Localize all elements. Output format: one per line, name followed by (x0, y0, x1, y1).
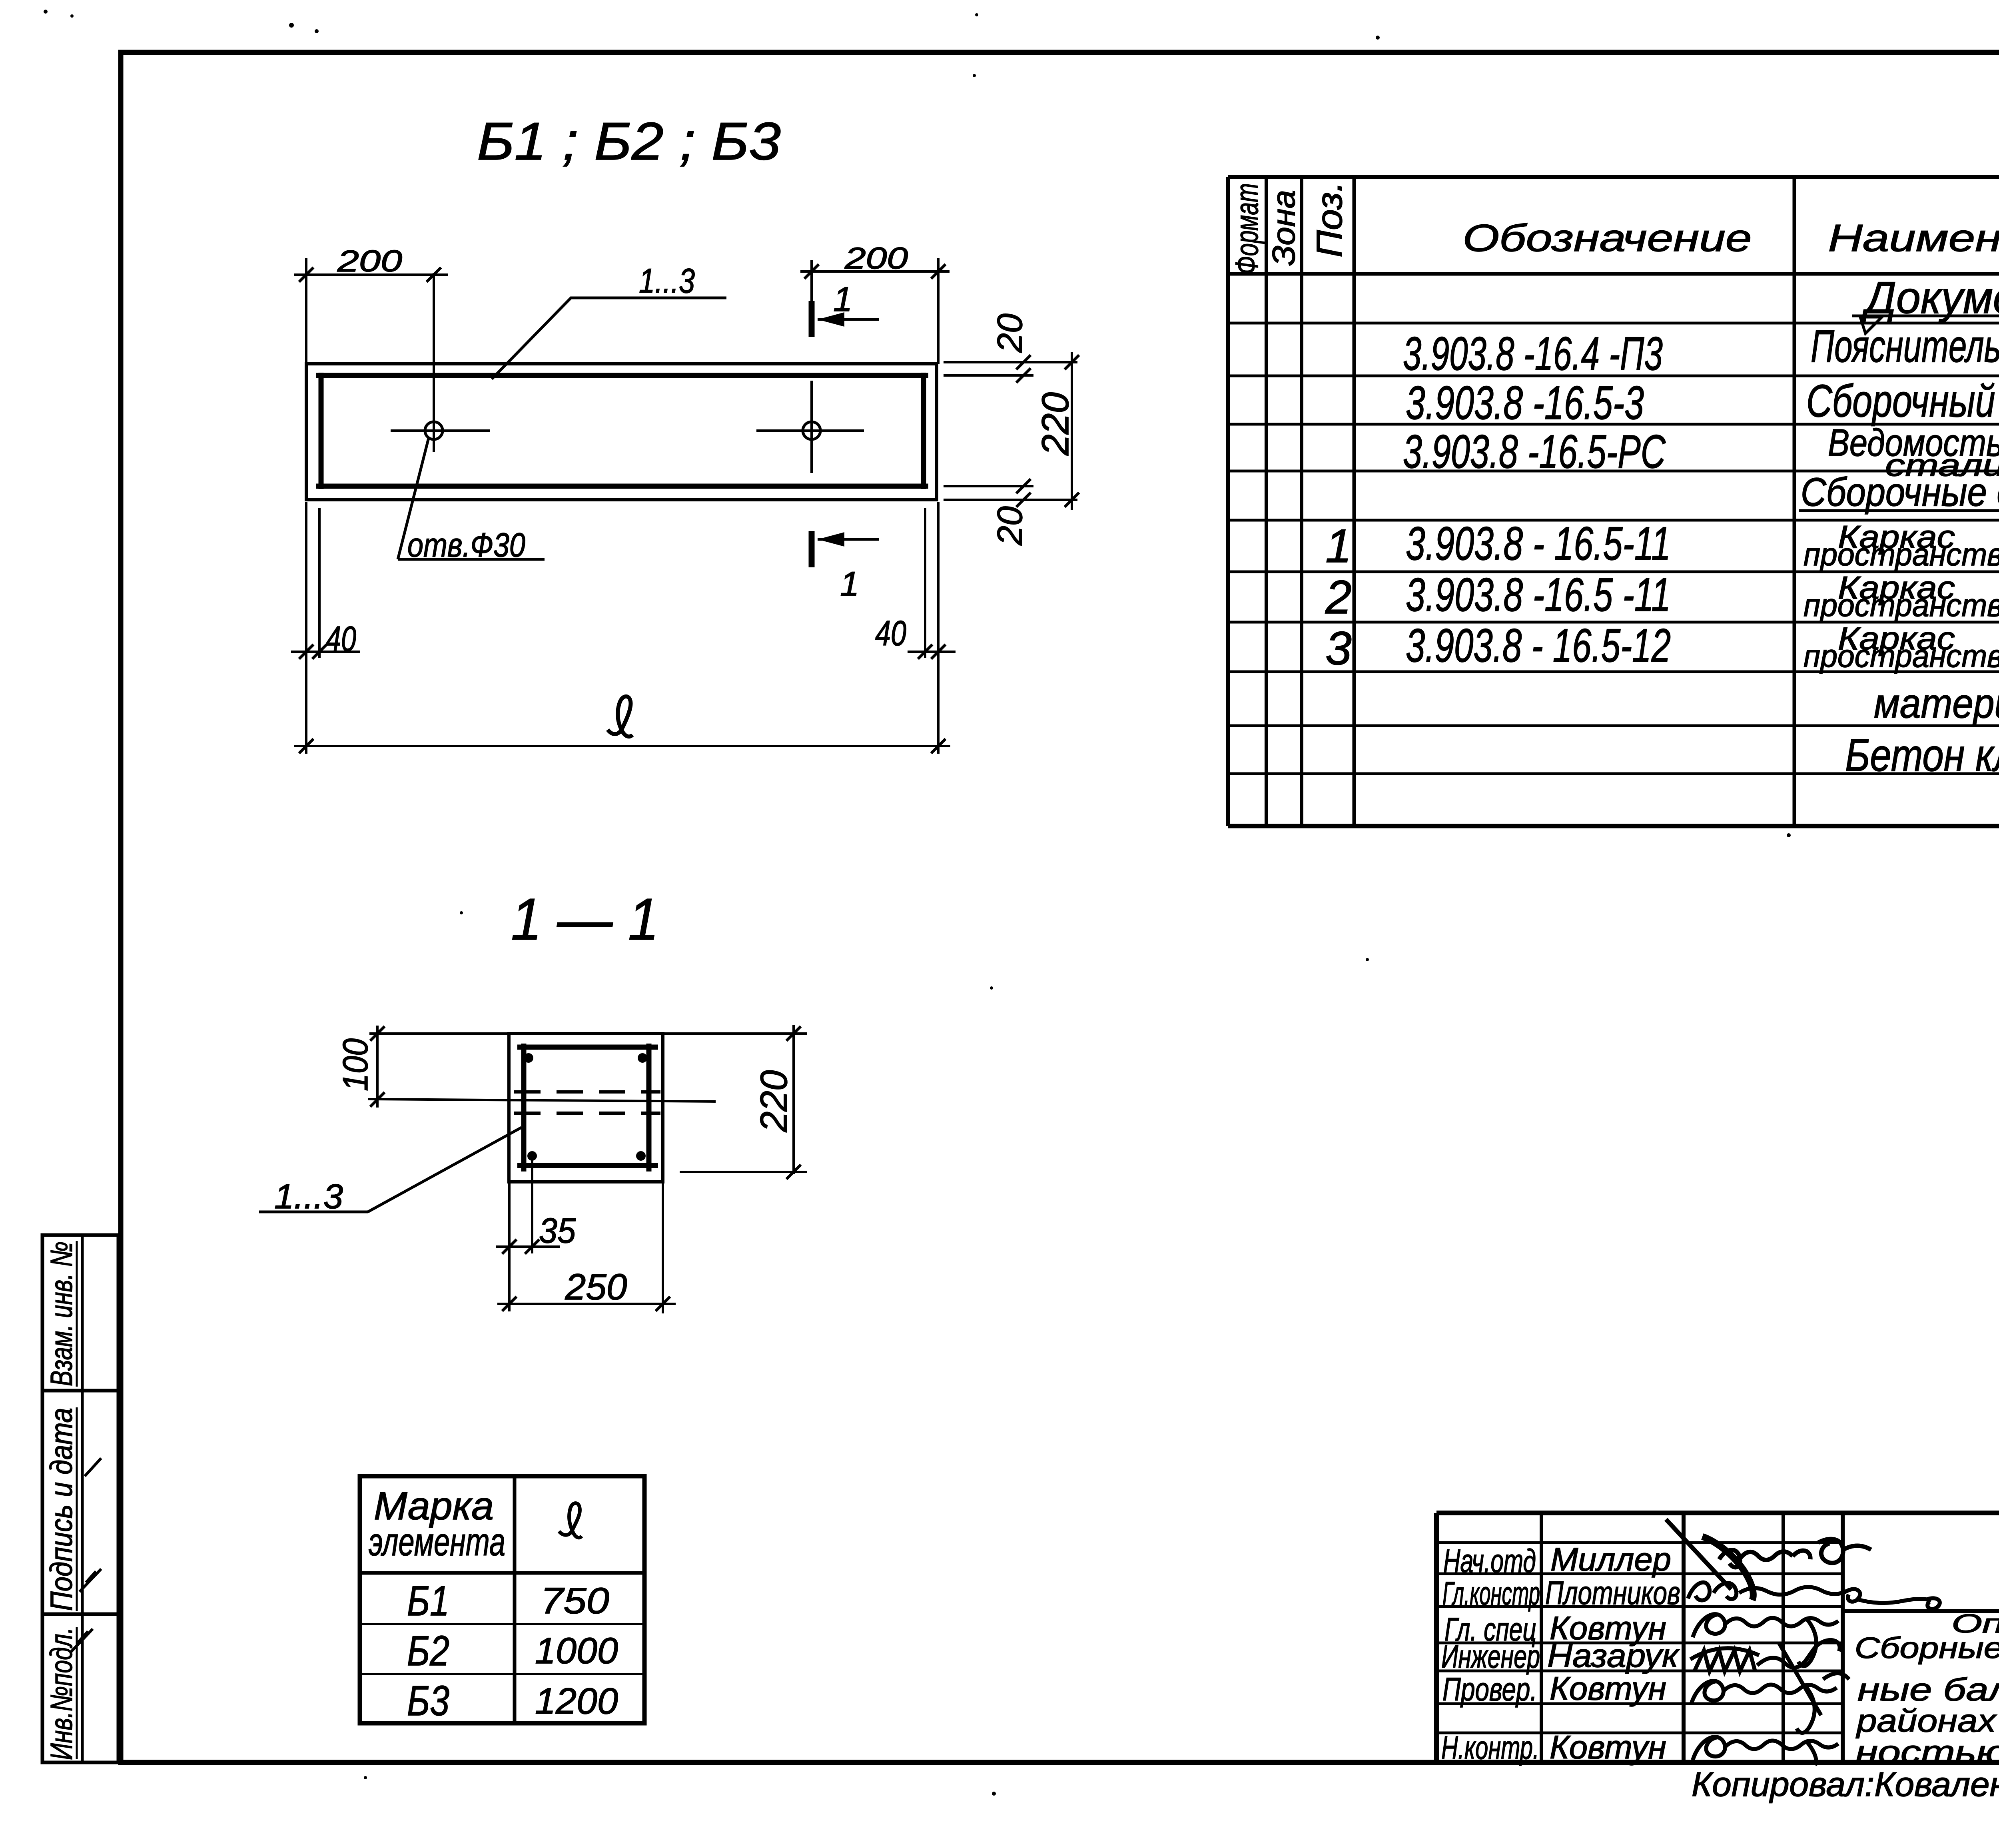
svg-text:1: 1 (1325, 520, 1352, 573)
dim 100: tick top (370, 1026, 385, 1041)
svg-text:пространственный: пространственный (1803, 587, 1999, 623)
svg-text:Обозначение: Обозначение (1463, 217, 1752, 259)
dim 20 top right: extension from beam top (944, 361, 1077, 363)
section mark 1 bottom: thick tick (809, 531, 815, 567)
left hole circle (425, 422, 443, 439)
left stamp outer box (42, 1235, 118, 1762)
svg-text:Наименование: Наименование (1828, 217, 1999, 259)
marka header script ell (559, 1503, 582, 1537)
dim 220 right: dimension line (1071, 352, 1073, 510)
dust speck (315, 29, 319, 33)
spec table header bottom line (1228, 272, 1999, 276)
section cage bottom bar (517, 1163, 658, 1168)
svg-text:ностью 7,8и9 баллов: ностью 7,8и9 баллов (1855, 1734, 1999, 1770)
right hole vertical centerline (810, 381, 813, 473)
svg-text:40: 40 (875, 613, 906, 653)
section centerline through square (368, 1099, 716, 1102)
dust speck (70, 14, 74, 18)
leader 1...3 section: underline (259, 1211, 368, 1213)
dim l overall: script ell label (608, 696, 632, 736)
svg-text:Миллер: Миллер (1550, 1541, 1671, 1578)
leader отв.Ф30: underline (398, 558, 545, 561)
svg-text:20: 20 (990, 313, 1029, 353)
dim 20 bottom right: extension from cage bottom (944, 485, 1033, 487)
title block col line signature/date (1782, 1513, 1785, 1762)
title block sig row line 6 (1436, 1702, 1843, 1705)
left stamp label underline (76, 1241, 78, 1387)
dim 40 left: tick 1 (299, 645, 313, 659)
dim 220 right: tick top (1065, 355, 1079, 369)
marka table column divider (513, 1476, 517, 1723)
svg-text:40: 40 (326, 619, 356, 659)
spec table top border (1228, 175, 1999, 179)
svg-text:Б3: Б3 (407, 1677, 449, 1724)
left hole horizontal centerline (391, 429, 490, 432)
svg-text:Поз.: Поз. (1310, 182, 1350, 257)
svg-text:1: 1 (840, 565, 859, 603)
dim 220 section: bottom extension (680, 1171, 807, 1173)
marka table row line 1 (360, 1623, 644, 1625)
reinforcing cage top bar (316, 373, 928, 378)
dust speck (1376, 36, 1380, 40)
svg-text:750: 750 (541, 1581, 609, 1621)
section mark 1 top: thick tick (809, 301, 815, 337)
dim 35: extension from rebar (531, 1159, 533, 1253)
spec table col line формат/зона (1265, 177, 1268, 826)
dim 250: tick left (502, 1297, 517, 1311)
dim 40 left: offset extension line (318, 508, 321, 658)
svg-text:Б2: Б2 (407, 1627, 449, 1674)
dim 200 right: tick right (931, 264, 946, 279)
dim 200 right: extension above section line (810, 260, 813, 301)
dim 35: tick 1 (502, 1239, 517, 1254)
dim 250: dimension line (497, 1303, 676, 1305)
svg-text:пространственный: пространственный (1803, 638, 1999, 674)
signature Плотников (1688, 1583, 1940, 1609)
reinforcing cage right end bar (921, 373, 926, 489)
dust speck (975, 13, 978, 16)
svg-text:3.903.8 -16.5 -11: 3.903.8 -16.5 -11 (1406, 569, 1671, 621)
svg-text:Подпись и дата: Подпись и дата (44, 1408, 79, 1611)
svg-text:Сборочные единицы: Сборочные единицы (1801, 470, 1999, 515)
dust speck (990, 986, 993, 990)
dim 20 top right: tick top (1016, 355, 1031, 369)
svg-text:100: 100 (335, 1038, 375, 1091)
dim 40 right: extension line at beam edge (937, 502, 940, 754)
title block sig row line 5 (1436, 1670, 1843, 1672)
svg-text:районах с сейсмич-: районах с сейсмич- (1856, 1703, 1999, 1738)
svg-text:Плотников: Плотников (1545, 1575, 1680, 1611)
dust speck (44, 10, 48, 14)
svg-text:Ковтун: Ковтун (1550, 1670, 1666, 1707)
marka table header bottom line (360, 1571, 644, 1575)
svg-text:отв.Ф30: отв.Ф30 (407, 526, 525, 564)
dim 220 section: top extension (663, 1032, 807, 1035)
svg-text:Гл.констр: Гл.констр (1442, 1575, 1540, 1612)
dim 200 right: dimension line (800, 270, 950, 273)
svg-text:35: 35 (539, 1211, 576, 1250)
spec table row line 3 (1228, 423, 1999, 426)
dim 200 left: tick right (427, 267, 441, 282)
left stamp divider 2 (42, 1613, 118, 1616)
svg-text:Пояснительная записка: Пояснительная записка (1811, 321, 1999, 372)
left stamp pen mark (80, 1569, 101, 1592)
dim 220 section: tick top (786, 1026, 801, 1041)
svg-text:2: 2 (1325, 571, 1352, 624)
svg-text:3.903.8 -16.5-РС: 3.903.8 -16.5-РС (1403, 425, 1666, 478)
svg-text:Провер.: Провер. (1442, 1671, 1537, 1708)
svg-text:220: 220 (753, 1070, 795, 1132)
dim 40 right: tick 1 (918, 645, 932, 659)
rebar dot top-left (524, 1053, 533, 1063)
section cage left bar (521, 1044, 527, 1171)
dim 40 right: dimension line (908, 651, 956, 653)
svg-text:1...3: 1...3 (639, 262, 695, 300)
section mark 1 top: arrowhead (818, 312, 844, 327)
beam outline (plan view) (306, 364, 937, 500)
svg-text:элемента: элемента (369, 1520, 505, 1564)
spec table row line 5 (1228, 519, 1999, 522)
dust speck (1366, 958, 1369, 961)
dust speck (289, 23, 294, 28)
dim 40 left: tick 2 (312, 645, 327, 659)
spec table row line 2 (1228, 375, 1999, 377)
svg-text:Копировал:Коваленко: Копировал:Коваленко (1692, 1766, 1999, 1804)
dim 20 bottom right: tick top (1016, 479, 1031, 493)
svg-text:1 — 1: 1 — 1 (511, 886, 659, 952)
svg-text:200: 200 (844, 241, 908, 275)
spec table row line 4 (1228, 470, 1999, 473)
dim 40 left: dimension line (291, 651, 360, 653)
svg-text:Формат: Формат (1229, 183, 1265, 274)
dim 200 left: left extension line (305, 258, 307, 364)
spec table col line зона/поз (1300, 177, 1303, 826)
svg-text:ные балки Б1;Б2;Б3 в: ные балки Б1;Б2;Б3 в (1857, 1672, 1999, 1707)
section outline square (509, 1034, 663, 1182)
dust speck (1787, 833, 1791, 837)
dim l overall: tick right (931, 739, 946, 753)
reinforcing cage left end bar (319, 373, 324, 489)
svg-text:3.903.8 - 16.5-12: 3.903.8 - 16.5-12 (1406, 619, 1671, 672)
left stamp pen mark (85, 1458, 101, 1476)
svg-text:1000: 1000 (535, 1630, 618, 1671)
dim 220 section: tick bottom (786, 1165, 801, 1179)
dim 250: right extension (662, 1183, 664, 1313)
spec table row line 7 (1228, 621, 1999, 624)
svg-text:Бетон кл. В15: Бетон кл. В15 (1845, 730, 1999, 781)
dim 20 bottom right: extension from beam bottom (944, 499, 1077, 501)
dim 250: tick right (656, 1297, 670, 1311)
rebar dot bottom-left (527, 1151, 537, 1161)
dim l overall: tick left (299, 739, 313, 753)
dim 100: dimension line (376, 1026, 379, 1108)
reinforcing cage bottom bar (316, 484, 928, 489)
title block col line date/doc-title (1841, 1513, 1845, 1762)
title block col line label/name (1540, 1513, 1543, 1762)
signature Миллер (1719, 1539, 1871, 1567)
spec table col line обозначение/наименование (1793, 177, 1796, 826)
right hole circle (803, 422, 820, 439)
svg-text:Ковтун: Ковтун (1550, 1729, 1666, 1766)
svg-text:Нач.отд: Нач.отд (1443, 1543, 1536, 1579)
svg-text:3.903.8 - 16.5-11: 3.903.8 - 16.5-11 (1406, 517, 1671, 570)
signature Ковтун (Провер.) (1691, 1673, 1849, 1733)
title block sig row line 4 (1436, 1642, 1843, 1644)
dim 20 bottom right: tick bottom (1016, 493, 1031, 507)
spec table row line 1 (1228, 322, 1999, 325)
dim 100: tick bottom (370, 1092, 385, 1107)
signature Назарук (1690, 1640, 1840, 1715)
svg-text:Назарук: Назарук (1547, 1638, 1680, 1674)
svg-text:250: 250 (565, 1267, 627, 1307)
title block top border (1436, 1511, 1999, 1515)
dust speck (973, 74, 976, 77)
dim 35: left extension (508, 1183, 511, 1311)
spec table row line 6 (1228, 571, 1999, 573)
dim 200 left: dimension line (294, 273, 448, 276)
svg-text:Зона: Зона (1266, 190, 1301, 266)
dim 35: tick 2 (525, 1239, 539, 1254)
title block sig row line 3 (1436, 1605, 1843, 1608)
signature Ковтун (Н.контр.) (1693, 1737, 1838, 1765)
title block sig row line 1 (1436, 1541, 1843, 1544)
spec table bottom border (1228, 824, 1999, 828)
title block sig row line 2 (1436, 1573, 1843, 1575)
title block left border (1434, 1513, 1439, 1762)
section cage right bar (646, 1044, 652, 1171)
left stamp label underline (76, 1627, 78, 1759)
dim 35: dimension line (496, 1245, 560, 1248)
left stamp label underline (76, 1407, 78, 1611)
dust speck (992, 1792, 996, 1796)
row Документация underline (1852, 315, 1999, 317)
spec table left border (1226, 177, 1230, 826)
svg-text:3: 3 (1325, 622, 1352, 675)
left stamp pen mark (71, 1629, 93, 1652)
svg-text:1...3: 1...3 (274, 1177, 343, 1216)
dim 40 left: extension line at beam edge (305, 502, 307, 754)
rebar dot bottom-right (636, 1151, 646, 1161)
left hole vertical centerline / extension (433, 273, 435, 452)
leader отв.Ф30: line (398, 438, 429, 559)
dim 100: top extension line (369, 1032, 509, 1035)
row Документация flag mark (1860, 317, 1882, 333)
section cage top bar (517, 1045, 658, 1050)
section mark 1 bottom: arrowhead (818, 532, 844, 547)
svg-text:материалы:: материалы: (1874, 681, 1999, 727)
dim 200 right: right extension line (937, 258, 940, 364)
svg-text:20: 20 (990, 506, 1029, 546)
rebar dot top-right (638, 1053, 647, 1063)
svg-text:220: 220 (1034, 392, 1077, 456)
dim l overall: dimension line (294, 745, 950, 747)
svg-text:Инженер: Инженер (1441, 1638, 1540, 1675)
marka table outer box (360, 1476, 644, 1723)
title block sig row line 7 (1436, 1732, 1843, 1734)
svg-text:1: 1 (833, 280, 852, 319)
svg-text:пространственный: пространственный (1803, 537, 1999, 572)
leader 1...3 section: diagonal (368, 1128, 521, 1212)
spec table row line 8 (1228, 671, 1999, 673)
dim 200 right: tick left (804, 264, 819, 279)
leader 1...3 (plan): polyline (492, 298, 726, 379)
spec table col line поз/обозначение (1353, 177, 1356, 826)
title block col line name/signature (1682, 1513, 1686, 1762)
signature flourish stroke 2 (1702, 1537, 1753, 1600)
strand dashed line lower (514, 1112, 660, 1115)
svg-text:Сборные железобетон-: Сборные железобетон- (1855, 1631, 1999, 1664)
signature Ковтун (Гл.спец) (1693, 1614, 1838, 1666)
svg-text:200: 200 (337, 244, 402, 278)
dim 20 top right: tick bottom (1016, 368, 1031, 383)
section mark 1 top: arrow shaft (818, 318, 879, 321)
spec table row line 10 (1228, 772, 1999, 775)
dim 220 right: tick bottom (1065, 493, 1079, 507)
svg-text:Взам. инв. №: Взам. инв. № (44, 1241, 79, 1386)
spec table row line 9 (1228, 724, 1999, 727)
dust speck (364, 1776, 367, 1779)
row Сборочные единицы underline (1799, 509, 1999, 512)
section mark 1 bottom: arrow shaft (818, 538, 879, 541)
svg-text:Н.контр.: Н.контр. (1441, 1730, 1539, 1766)
dim 40 right: offset extension line (924, 508, 926, 658)
dim 200 left: tick left (299, 267, 313, 282)
svg-text:Б1 ; Б2 ; Б3: Б1 ; Б2 ; Б3 (477, 112, 781, 171)
left stamp column divider (81, 1235, 84, 1762)
dim 40 right: tick 2 (931, 645, 946, 659)
title block line under doc code (1843, 1609, 1999, 1613)
dim 220 section: dimension line (792, 1025, 795, 1174)
signature flourish stroke 1 (1666, 1519, 1731, 1589)
svg-text:3.903.8 -16.5-3: 3.903.8 -16.5-3 (1406, 377, 1644, 429)
svg-text:Б1: Б1 (407, 1577, 449, 1624)
svg-text:Сборочный чертеж: Сборочный чертеж (1806, 376, 1999, 427)
strand dashed line upper (514, 1090, 660, 1094)
svg-text:1200: 1200 (535, 1681, 618, 1722)
right hole horizontal centerline (756, 429, 864, 432)
dust speck (460, 911, 463, 914)
marka table row line 2 (360, 1673, 644, 1675)
left stamp divider 1 (42, 1389, 118, 1393)
svg-text:3.903.8 -16.4 -П3: 3.903.8 -16.4 -П3 (1403, 327, 1663, 380)
dim 20 top right: extension from cage top (944, 374, 1033, 377)
